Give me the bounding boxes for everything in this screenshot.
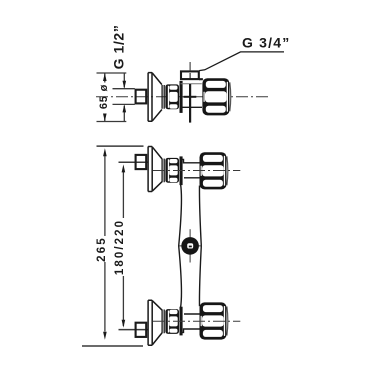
- svg-text:65 ø: 65 ø: [98, 84, 110, 109]
- svg-text:180/220: 180/220: [114, 219, 126, 275]
- svg-text:G 1/2”: G 1/2”: [110, 25, 126, 70]
- svg-text:265: 265: [96, 236, 108, 262]
- svg-text:G 3/4”: G 3/4”: [242, 35, 290, 51]
